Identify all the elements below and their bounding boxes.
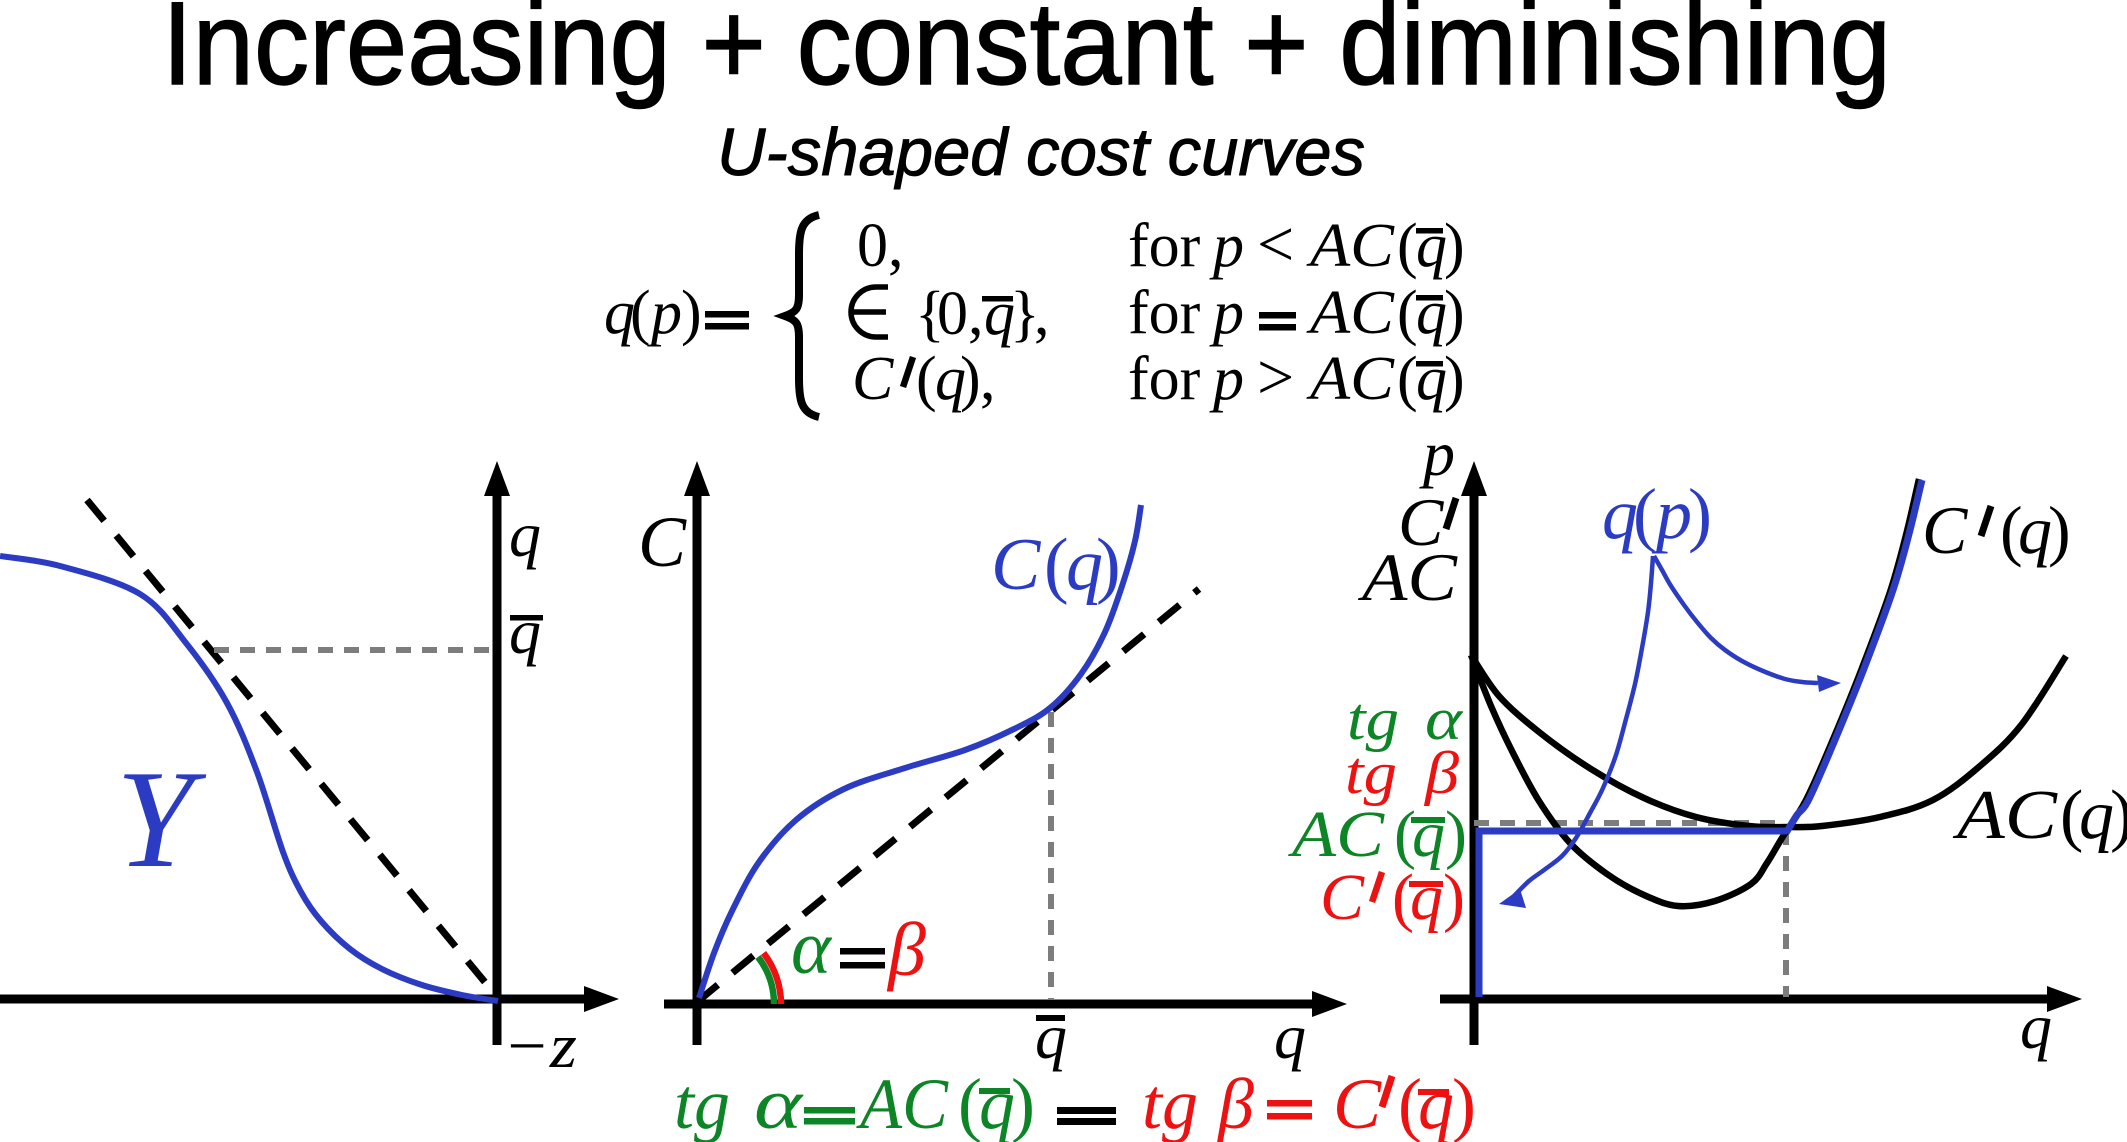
left graph x-axis bbox=[0, 995, 600, 1004]
svg-text:β: β bbox=[1216, 1064, 1254, 1142]
svg-text:q: q bbox=[2079, 777, 2114, 854]
svg-text:for: for bbox=[1128, 212, 1201, 280]
svg-text:): ) bbox=[1096, 524, 1121, 606]
right graph label AC(qbar) (green) bbox=[1288, 798, 1467, 871]
svg-text:AC: AC bbox=[1306, 212, 1395, 280]
svg-text:tg: tg bbox=[1142, 1064, 1198, 1142]
formula condition row 1: for p .. AC(qbar) bbox=[1128, 208, 1465, 281]
svg-text:q: q bbox=[1274, 1001, 1306, 1072]
svg-text:q: q bbox=[1035, 1001, 1067, 1072]
svg-text:C: C bbox=[991, 524, 1042, 606]
svg-text:): ) bbox=[1011, 1064, 1035, 1142]
svg-text:p: p bbox=[647, 279, 682, 347]
svg-text:q: q bbox=[509, 499, 541, 570]
svg-text:q: q bbox=[509, 596, 541, 667]
right graph black C-prime(q) curve bbox=[1471, 479, 1919, 906]
formula condition row 3: for p .. AC(qbar) bbox=[1128, 341, 1465, 414]
middle graph x-axis bbox=[664, 1000, 1327, 1009]
bottom identity: black equals bbox=[1057, 1107, 1116, 1114]
right graph blue arrow to supply-at-zero branch bbox=[1514, 556, 1653, 896]
right graph label tg beta (red) bbox=[1345, 740, 1459, 806]
svg-text:α: α bbox=[754, 1064, 804, 1142]
right graph gray dashed vertical at qbar bbox=[1783, 830, 1789, 997]
middle graph gray dashed vertical at qbar bbox=[1048, 712, 1054, 1000]
svg-text:for: for bbox=[1128, 279, 1201, 347]
svg-text:q: q bbox=[1418, 1064, 1454, 1142]
left graph blue production frontier curve bbox=[0, 556, 498, 1001]
right graph label C-prime(qbar) (red) bbox=[1320, 861, 1465, 934]
svg-text:Y: Y bbox=[116, 742, 207, 897]
formula equals sign bbox=[705, 311, 749, 318]
svg-text:C: C bbox=[638, 502, 687, 582]
svg-text:β: β bbox=[886, 908, 926, 992]
middle graph label C(q) bbox=[991, 524, 1121, 606]
svg-text:AC: AC bbox=[1306, 279, 1395, 347]
svg-text:AC: AC bbox=[856, 1064, 949, 1142]
right graph label AC(q) black bbox=[1953, 777, 2127, 854]
formula condition row 2: for p .. AC(qbar) bbox=[1128, 279, 1465, 347]
right graph blue label q(p) bbox=[1602, 474, 1712, 554]
middle graph y-axis bbox=[693, 480, 702, 1045]
svg-text:q: q bbox=[1416, 345, 1447, 413]
svg-text:p: p bbox=[1651, 474, 1692, 554]
svg-text:Increasing + constant + dimini: Increasing + constant + diminishing bbox=[162, 0, 1891, 110]
right graph black AC(q) curve bbox=[1471, 655, 2066, 827]
svg-text:<: < bbox=[1257, 208, 1294, 281]
left graph y-axis bbox=[493, 480, 502, 1045]
svg-text:(: ( bbox=[1397, 212, 1418, 280]
svg-text:q: q bbox=[979, 1064, 1015, 1142]
svg-text:(: ( bbox=[1633, 474, 1657, 554]
svg-text:p: p bbox=[1419, 418, 1455, 489]
svg-text:(: ( bbox=[1397, 279, 1418, 347]
bottom identity: tg alpha = AC(qbar) (green) bbox=[674, 1064, 1035, 1142]
svg-text:C: C bbox=[1320, 861, 1365, 934]
svg-text:−z: −z bbox=[503, 1010, 577, 1081]
svg-text:p: p bbox=[1209, 345, 1244, 413]
middle graph red angle arc beta bbox=[764, 953, 782, 1004]
svg-text:tg: tg bbox=[674, 1064, 730, 1142]
svg-text:C: C bbox=[852, 345, 894, 413]
right graph x-axis bbox=[1440, 995, 2062, 1004]
middle graph equals between alpha and beta bbox=[840, 948, 885, 955]
svg-text:tg: tg bbox=[1345, 740, 1397, 806]
svg-text:p: p bbox=[1209, 279, 1244, 347]
right graph y-axis bbox=[1470, 480, 1479, 1045]
right graph blue arrow to marginal-cost branch bbox=[1654, 556, 1818, 683]
middle graph blue cost curve C(q) bbox=[699, 505, 1141, 998]
formula q(p)= lhs bbox=[604, 279, 702, 347]
svg-text:): ) bbox=[2048, 492, 2071, 568]
svg-text:AC: AC bbox=[1306, 345, 1395, 413]
svg-text:AC: AC bbox=[1953, 777, 2059, 854]
svg-text:0,: 0, bbox=[857, 212, 904, 280]
svg-text:(: ( bbox=[1397, 345, 1418, 413]
middle graph dashed ray from origin (average cost line) bbox=[697, 589, 1199, 1002]
svg-text:(: ( bbox=[1044, 524, 1069, 606]
right graph label C-prime(q) black bbox=[1922, 492, 2071, 568]
svg-text:q: q bbox=[1416, 212, 1447, 280]
svg-text:): ) bbox=[681, 279, 702, 347]
formula row 2 value: in {0, qbar}, bbox=[851, 287, 888, 337]
svg-text:AC: AC bbox=[1358, 539, 1458, 615]
right graph label tg alpha (green) bbox=[1347, 686, 1464, 752]
svg-text:): ) bbox=[1444, 212, 1465, 280]
bottom identity: tg beta = C-prime(qbar) (red) bbox=[1142, 1064, 1476, 1142]
formula big curly brace bbox=[785, 215, 819, 417]
svg-text:q: q bbox=[1410, 861, 1443, 934]
svg-text:,: , bbox=[980, 345, 996, 413]
svg-text:>: > bbox=[1257, 341, 1294, 414]
svg-text:β: β bbox=[1424, 740, 1459, 806]
svg-text:U-shaped cost curves: U-shaped cost curves bbox=[717, 115, 1365, 190]
svg-text:,: , bbox=[1034, 280, 1050, 348]
svg-text:C: C bbox=[1333, 1064, 1382, 1142]
left graph dashed tangent line bbox=[87, 500, 498, 998]
svg-text:): ) bbox=[1688, 474, 1712, 554]
svg-text:): ) bbox=[1444, 279, 1465, 347]
svg-text:): ) bbox=[1452, 1064, 1476, 1142]
svg-text:α: α bbox=[791, 906, 833, 990]
svg-text:q: q bbox=[2020, 991, 2052, 1062]
svg-text:(: ( bbox=[916, 345, 937, 413]
svg-text:for: for bbox=[1128, 345, 1201, 413]
svg-text:(: ( bbox=[630, 279, 651, 347]
right graph blue supply curve q(p): vertical + horizontal + marginal cost branch bbox=[1479, 831, 1787, 997]
svg-text:): ) bbox=[1444, 345, 1465, 413]
svg-text:p: p bbox=[1209, 212, 1244, 280]
left graph gray dashed qbar level line bbox=[214, 647, 495, 653]
svg-text:q: q bbox=[2018, 492, 2052, 568]
svg-text:): ) bbox=[1443, 861, 1465, 934]
svg-text:0,: 0, bbox=[937, 280, 984, 348]
svg-text:): ) bbox=[2110, 777, 2127, 854]
svg-text:q: q bbox=[1416, 279, 1447, 347]
middle graph green angle arc alpha bbox=[758, 957, 774, 1004]
svg-text:C: C bbox=[1922, 492, 1968, 568]
svg-text:): ) bbox=[960, 345, 981, 413]
right graph gray dashed horizontal at AC(qbar) bbox=[1474, 820, 1786, 826]
